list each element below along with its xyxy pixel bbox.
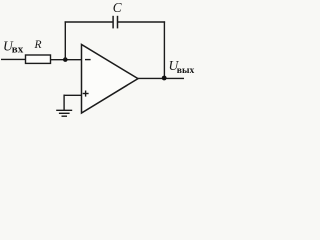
wire: drop to ground (63, 95, 65, 111)
wire: non-inverting input lead (64, 94, 82, 96)
ground symbol (56, 109, 72, 111)
resistor R (26, 55, 51, 63)
wire: op-amp output (138, 77, 184, 79)
node output junction dot (162, 76, 167, 81)
svg-text:вх: вх (12, 44, 24, 56)
svg-text:R: R (34, 39, 42, 51)
node junction dot (summing node) (63, 57, 68, 62)
wire: input lead to resistor (1, 58, 26, 60)
wire: top feedback rail left of capacitor (65, 21, 113, 23)
capacitor C right plate (117, 16, 119, 29)
wire: junction up to feedback rail (64, 21, 66, 59)
op-amp non-inverting input plus sign (83, 93, 89, 95)
wire: top feedback rail right of capacitor (118, 21, 165, 23)
svg-text:C: C (113, 0, 122, 15)
wire: right feedback drop to output node (163, 21, 165, 78)
capacitor C left plate (112, 16, 114, 29)
op-amp inverting input minus sign (85, 59, 91, 61)
wire: resistor to inverting input (51, 59, 82, 61)
op-amp U1 triangle (82, 45, 139, 114)
svg-text:вых: вых (177, 65, 195, 76)
